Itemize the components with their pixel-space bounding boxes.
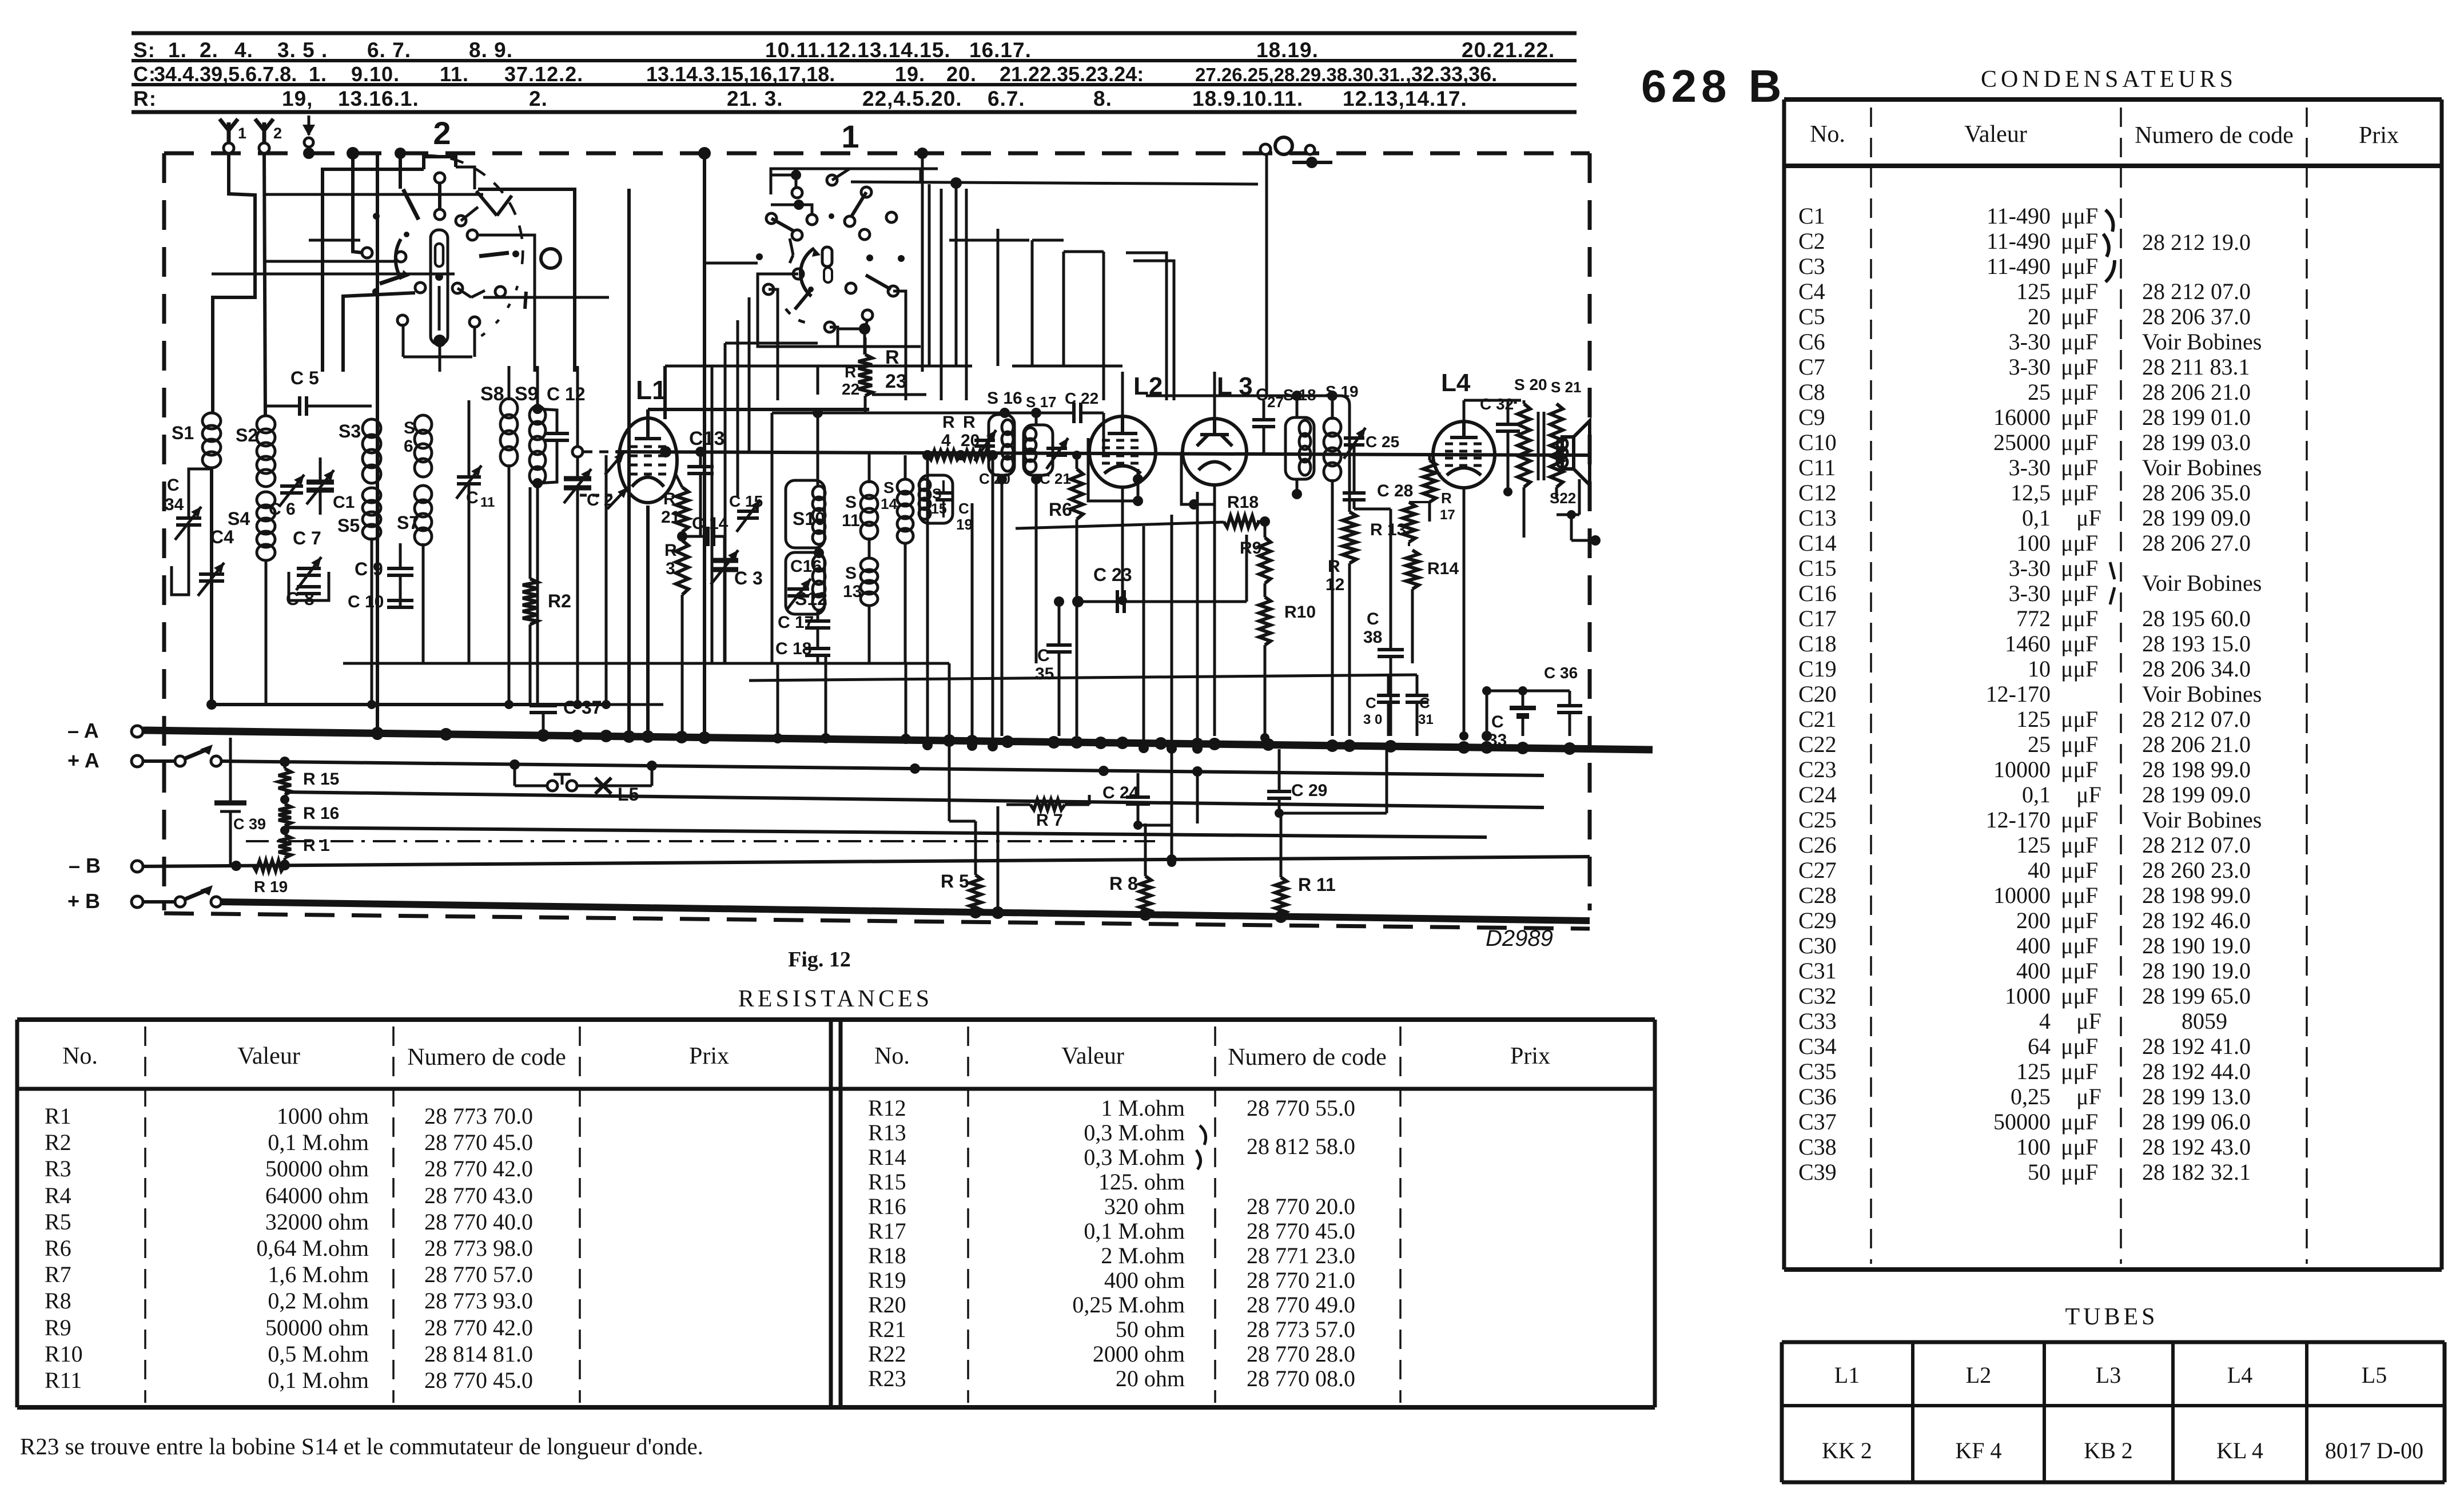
svg-text:C32: C32 xyxy=(1798,983,1837,1009)
svg-text:Fig. 12: Fig. 12 xyxy=(788,948,851,972)
svg-text:40: 40 xyxy=(2028,857,2051,883)
svg-text:μF: μF xyxy=(2076,1008,2101,1034)
coil S15 xyxy=(919,479,930,491)
svg-text:28 770 42.0: 28 770 42.0 xyxy=(424,1315,533,1340)
svg-text:S 21: S 21 xyxy=(1551,379,1582,396)
svg-text:28 260 23.0: 28 260 23.0 xyxy=(2142,857,2251,883)
svg-text:20.: 20. xyxy=(946,62,977,86)
svg-text:S1: S1 xyxy=(172,423,194,443)
svg-text:C 23: C 23 xyxy=(1093,564,1132,585)
svg-text:S: S xyxy=(404,419,415,437)
svg-text:S 20: S 20 xyxy=(1514,376,1547,393)
svg-text:6.7.: 6.7. xyxy=(988,87,1025,110)
svg-text:C 20: C 20 xyxy=(979,470,1010,487)
svg-text:Voir Bobines: Voir Bobines xyxy=(2142,681,2262,707)
resistor R5 xyxy=(970,875,981,914)
svg-text:μμF: μμF xyxy=(2061,1059,2098,1084)
svg-text:27: 27 xyxy=(1267,393,1284,411)
svg-text:R1: R1 xyxy=(45,1103,71,1129)
svg-text:27.26.25,28.29.38.30.31.: 27.26.25,28.29.38.30.31. xyxy=(1195,64,1405,85)
svg-text:No.: No. xyxy=(62,1043,98,1069)
svg-text:0,1 M.ohm: 0,1 M.ohm xyxy=(268,1129,369,1155)
svg-text:28 770 45.0: 28 770 45.0 xyxy=(424,1129,533,1155)
svg-text:28 770 45.0: 28 770 45.0 xyxy=(1247,1218,1355,1244)
svg-text:R10: R10 xyxy=(1284,603,1316,622)
svg-text:Numero de code: Numero de code xyxy=(1228,1044,1387,1071)
coil S13 xyxy=(861,558,878,572)
wire mid-left joins xyxy=(206,699,217,710)
svg-text:21.22.35.23.24:: 21.22.35.23.24: xyxy=(1000,62,1144,86)
svg-text:400: 400 xyxy=(2016,958,2051,984)
svg-text:34.4.39,5.6.7.8.: 34.4.39,5.6.7.8. xyxy=(154,62,297,86)
switch on +B line xyxy=(143,900,174,904)
wire long vertical 1100 xyxy=(627,189,631,736)
svg-text:28 190 19.0: 28 190 19.0 xyxy=(2142,958,2251,984)
svg-text:Prix: Prix xyxy=(1510,1043,1550,1069)
switch 2 right frame xyxy=(478,189,575,372)
resistor R17 xyxy=(1423,460,1436,502)
schematic dashed enclosure border xyxy=(164,152,1590,156)
resistor R13 xyxy=(1403,502,1415,542)
svg-text:0,25 M.ohm: 0,25 M.ohm xyxy=(1072,1292,1185,1318)
svg-text:S 19: S 19 xyxy=(1325,383,1359,400)
svg-text:28 199 65.0: 28 199 65.0 xyxy=(2142,983,2251,1009)
coil S15 shield can xyxy=(919,475,953,523)
svg-text:C1: C1 xyxy=(333,493,355,512)
svg-text:S:: S: xyxy=(133,38,156,62)
coil S5 xyxy=(363,488,381,503)
svg-text:μF: μF xyxy=(2076,1084,2101,1109)
transformer core lines xyxy=(1537,412,1540,480)
svg-text:S5: S5 xyxy=(337,515,360,536)
tube L2 cathode bracket xyxy=(1088,438,1138,501)
svg-text:28 206 35.0: 28 206 35.0 xyxy=(2142,480,2251,506)
main spine wire at y 790 xyxy=(583,451,616,453)
svg-text:28 199 09.0: 28 199 09.0 xyxy=(2142,782,2251,807)
svg-text:C16: C16 xyxy=(1798,580,1837,606)
svg-text:28 770 43.0: 28 770 43.0 xyxy=(424,1183,533,1208)
svg-text:35: 35 xyxy=(1035,665,1054,683)
svg-text:C35: C35 xyxy=(1798,1059,1837,1084)
svg-text:C19: C19 xyxy=(1798,656,1837,682)
svg-text:μμF: μμF xyxy=(2061,832,2098,858)
svg-text:0,25: 0,25 xyxy=(2011,1084,2051,1109)
dial lamp L5 push-button and fuse xyxy=(514,765,516,786)
coil S18 xyxy=(1299,420,1311,436)
switch 2 left frame xyxy=(323,169,424,372)
svg-text:1: 1 xyxy=(238,125,246,142)
svg-text:C 7: C 7 xyxy=(293,528,321,548)
svg-text:R8: R8 xyxy=(45,1288,71,1314)
svg-text:23: 23 xyxy=(885,371,907,392)
svg-text:C 21: C 21 xyxy=(1040,470,1071,487)
bus wire from R16 right xyxy=(285,827,1487,837)
svg-text:28 814 81.0: 28 814 81.0 xyxy=(424,1341,533,1367)
svg-text:R 11: R 11 xyxy=(1298,874,1336,895)
svg-text:8017 D-00: 8017 D-00 xyxy=(2325,1438,2423,1463)
svg-text:Prix: Prix xyxy=(689,1043,729,1069)
svg-text:28 212 07.0: 28 212 07.0 xyxy=(2142,706,2251,732)
svg-text:C 28: C 28 xyxy=(1377,482,1413,500)
svg-text:R7: R7 xyxy=(45,1262,71,1287)
switch 2 dash-dot pointers xyxy=(403,189,419,220)
svg-text:R2: R2 xyxy=(45,1129,71,1155)
svg-text:R 8: R 8 xyxy=(1109,873,1138,894)
svg-text:38: 38 xyxy=(1363,628,1382,647)
resistor R7 xyxy=(1030,799,1065,810)
svg-text:1000 ohm: 1000 ohm xyxy=(277,1103,369,1129)
svg-text:R6: R6 xyxy=(45,1235,71,1261)
svg-text:6: 6 xyxy=(404,437,413,456)
svg-text:125: 125 xyxy=(2016,278,2051,304)
svg-text:R10: R10 xyxy=(45,1341,83,1367)
svg-text:S7: S7 xyxy=(397,512,419,533)
svg-text:S3: S3 xyxy=(339,421,361,441)
resistances table frame xyxy=(17,1017,1655,1022)
svg-text:28 206 21.0: 28 206 21.0 xyxy=(2142,731,2251,757)
gramophone terminals top right xyxy=(1260,144,1271,154)
svg-text:CONDENSATEURS: CONDENSATEURS xyxy=(1981,66,2237,93)
svg-text:R14: R14 xyxy=(1427,559,1459,578)
coil S16 shield can xyxy=(989,415,1014,475)
svg-text:Voir Bobines: Voir Bobines xyxy=(2142,329,2262,355)
svg-text:C36: C36 xyxy=(1798,1084,1837,1109)
wire horizontals upper middle xyxy=(665,365,972,368)
resistor R9 xyxy=(1259,538,1271,583)
svg-text:13: 13 xyxy=(843,582,862,601)
svg-text:C16: C16 xyxy=(790,557,822,576)
svg-text:μμF: μμF xyxy=(2061,1109,2098,1135)
bus +A line xyxy=(221,761,1544,775)
svg-text:28 770 55.0: 28 770 55.0 xyxy=(1247,1095,1355,1121)
svg-text:L1: L1 xyxy=(636,375,667,405)
svg-text:μμF: μμF xyxy=(2061,1134,2098,1160)
svg-text:C20: C20 xyxy=(1798,681,1837,707)
svg-text:1: 1 xyxy=(841,118,859,154)
svg-text:C: C xyxy=(1037,646,1050,665)
svg-text:μμF: μμF xyxy=(2061,1033,2098,1059)
svg-text:C 39: C 39 xyxy=(233,815,266,833)
svg-text:μμF: μμF xyxy=(2061,429,2098,455)
svg-text:3-30: 3-30 xyxy=(2009,555,2051,581)
svg-text:28 773 98.0: 28 773 98.0 xyxy=(424,1235,533,1261)
wire lower horizontal 1160 xyxy=(423,662,949,665)
svg-text:C13: C13 xyxy=(1798,505,1837,531)
switch 1 frame wires xyxy=(758,274,921,347)
svg-text:KB 2: KB 2 xyxy=(2084,1438,2133,1463)
bus +B thick line xyxy=(221,902,1590,921)
svg-text:28 206 34.0: 28 206 34.0 xyxy=(2142,656,2251,682)
svg-text:L5: L5 xyxy=(2362,1362,2387,1388)
svg-text:28 812 58.0: 28 812 58.0 xyxy=(1247,1133,1355,1159)
svg-text:18.19.: 18.19. xyxy=(1256,38,1319,62)
svg-text:22: 22 xyxy=(842,380,859,398)
svg-text:0,3 M.ohm: 0,3 M.ohm xyxy=(1084,1120,1185,1145)
svg-text:μμF: μμF xyxy=(2061,354,2098,380)
svg-text:Voir Bobines: Voir Bobines xyxy=(2142,807,2262,833)
svg-text:28 770 57.0: 28 770 57.0 xyxy=(424,1262,533,1287)
svg-text:19,: 19, xyxy=(282,87,313,110)
dash-dot AVC line xyxy=(246,840,1155,842)
svg-text:16.17.: 16.17. xyxy=(969,38,1032,62)
switch 2 selector arrow xyxy=(396,239,401,279)
resistor R8 xyxy=(1140,876,1151,915)
svg-text:1,6 M.ohm: 1,6 M.ohm xyxy=(268,1262,369,1287)
svg-text:S 18: S 18 xyxy=(1283,386,1316,404)
svg-text:C 14: C 14 xyxy=(692,514,729,533)
svg-text:C38: C38 xyxy=(1798,1134,1837,1160)
svg-text:μμF: μμF xyxy=(2061,404,2098,430)
resistor R14 xyxy=(1406,550,1419,589)
svg-text:R: R xyxy=(664,541,677,560)
wire antenna bus across top xyxy=(211,297,214,413)
svg-text:10000: 10000 xyxy=(1993,757,2051,782)
svg-text:C39: C39 xyxy=(1798,1159,1837,1185)
svg-text:R12: R12 xyxy=(868,1095,906,1121)
svg-text:3: 3 xyxy=(666,559,675,578)
svg-text:L4: L4 xyxy=(1441,369,1471,397)
svg-text:R:: R: xyxy=(133,87,157,110)
svg-text:28 206 21.0: 28 206 21.0 xyxy=(2142,379,2251,405)
svg-text:28 192 43.0: 28 192 43.0 xyxy=(2142,1134,2251,1160)
coil S18 shield can xyxy=(1285,417,1314,479)
switch 2 wire from top border xyxy=(347,147,359,160)
svg-text:28 199 09.0: 28 199 09.0 xyxy=(2142,505,2251,531)
coil S10 shield can xyxy=(786,480,825,548)
svg-text:R4: R4 xyxy=(45,1183,71,1208)
svg-text:R 15: R 15 xyxy=(303,770,339,789)
resistor R2 xyxy=(523,579,538,624)
svg-text:C: C xyxy=(1491,713,1504,731)
resistor R12 xyxy=(1343,512,1356,563)
svg-text:C10: C10 xyxy=(1798,429,1837,455)
svg-text:R11: R11 xyxy=(45,1367,82,1393)
tube L2 wires xyxy=(1121,372,1124,416)
svg-text:C15: C15 xyxy=(1798,555,1837,581)
wire S16 top line xyxy=(928,412,1064,415)
svg-text:0,1 M.ohm: 0,1 M.ohm xyxy=(268,1367,369,1393)
svg-text:S 17: S 17 xyxy=(1026,393,1057,411)
svg-text:32000 ohm: 32000 ohm xyxy=(265,1209,369,1235)
svg-text:μμF: μμF xyxy=(2061,731,2098,757)
svg-text:11.: 11. xyxy=(440,62,469,86)
svg-text:125: 125 xyxy=(2016,832,2051,858)
svg-text:C: C xyxy=(1366,694,1376,711)
svg-text:Valeur: Valeur xyxy=(1964,121,2027,148)
svg-text:C3: C3 xyxy=(1798,253,1825,279)
svg-text:28 211 83.1: 28 211 83.1 xyxy=(2142,354,2250,380)
svg-text:μμF: μμF xyxy=(2061,203,2098,229)
svg-text:Valeur: Valeur xyxy=(237,1043,300,1069)
svg-text:28 770 40.0: 28 770 40.0 xyxy=(424,1209,533,1235)
svg-text:C29: C29 xyxy=(1798,908,1837,933)
svg-text:0,64 M.ohm: 0,64 M.ohm xyxy=(256,1235,369,1261)
wire top dashed junction to switch xyxy=(395,148,406,159)
svg-text:20.21.22.: 20.21.22. xyxy=(1462,38,1555,62)
svg-text:13.16.1.: 13.16.1. xyxy=(338,87,419,110)
svg-text:R17: R17 xyxy=(868,1218,906,1244)
svg-text:S: S xyxy=(845,564,857,583)
svg-text:S4: S4 xyxy=(228,508,250,529)
switch 2 dial lamp circle xyxy=(541,249,560,268)
wire detector stage box top xyxy=(1146,395,1342,397)
svg-text:C 5: C 5 xyxy=(290,368,319,388)
svg-text:μμF: μμF xyxy=(2061,933,2098,958)
svg-text:R15: R15 xyxy=(868,1169,906,1195)
svg-text:1460: 1460 xyxy=(2005,631,2051,656)
svg-text:– B: – B xyxy=(69,854,101,877)
svg-text:R 5: R 5 xyxy=(941,871,969,892)
grid stopper R17 wire xyxy=(1428,502,1431,522)
wire verticals to negative A bus xyxy=(926,455,929,745)
svg-text:C6: C6 xyxy=(1798,329,1825,355)
svg-text:28 770 20.0: 28 770 20.0 xyxy=(1247,1193,1355,1219)
svg-text:3 0: 3 0 xyxy=(1363,712,1382,727)
wire C34 C4 frame xyxy=(189,469,212,480)
svg-text:11-490: 11-490 xyxy=(1987,253,2051,279)
output transformer primary S20 xyxy=(1518,404,1530,487)
svg-text:S22: S22 xyxy=(1550,490,1576,507)
svg-text:C11: C11 xyxy=(1798,455,1836,480)
coil S16 xyxy=(1002,420,1013,435)
switch 2 wire left horizontals xyxy=(266,260,396,263)
svg-text:μμF: μμF xyxy=(2061,606,2098,631)
bus -B line xyxy=(143,857,1590,866)
svg-text:6. 7.: 6. 7. xyxy=(367,38,411,62)
svg-text:12-170: 12-170 xyxy=(1986,681,2051,707)
resistor R11 xyxy=(1275,877,1287,916)
svg-text:125: 125 xyxy=(2016,706,2051,732)
svg-text:L3: L3 xyxy=(2096,1362,2121,1388)
switch 1 selector arrow xyxy=(801,248,814,296)
svg-text:C:: C: xyxy=(133,62,156,86)
svg-text:Voir Bobines: Voir Bobines xyxy=(2142,455,2262,480)
resistor R3 xyxy=(676,540,688,595)
switch 2 top hat notch xyxy=(424,157,456,169)
svg-text:C37: C37 xyxy=(1798,1109,1837,1135)
coil S1 xyxy=(202,413,221,429)
bus wire from R15 right xyxy=(285,792,1544,807)
svg-text:C22: C22 xyxy=(1798,731,1837,757)
svg-text:C: C xyxy=(167,476,180,495)
svg-text:C 10: C 10 xyxy=(348,592,384,611)
svg-text:L5: L5 xyxy=(618,784,639,805)
svg-text:0,1 M.ohm: 0,1 M.ohm xyxy=(1084,1218,1185,1244)
switch 2 contacts xyxy=(435,173,445,183)
svg-text:28 199 13.0: 28 199 13.0 xyxy=(2142,1084,2251,1109)
svg-text:μμF: μμF xyxy=(2061,983,2098,1009)
svg-text:R6: R6 xyxy=(1049,499,1072,520)
condensateurs table frame xyxy=(1784,97,2442,102)
svg-text:C: C xyxy=(958,500,969,517)
svg-text:C17: C17 xyxy=(1798,606,1837,631)
svg-text:μF: μF xyxy=(2076,782,2101,807)
wire lower horizontal 1190 xyxy=(749,675,1417,681)
svg-text:11: 11 xyxy=(842,511,860,530)
svg-text:,32.33,36.: ,32.33,36. xyxy=(1406,62,1497,86)
svg-text:μμF: μμF xyxy=(2061,857,2098,883)
svg-text:9.10.: 9.10. xyxy=(351,62,400,86)
tube L3 cathode bracket xyxy=(1181,452,1215,504)
svg-text:μμF: μμF xyxy=(2061,278,2098,304)
svg-text:28 773 93.0: 28 773 93.0 xyxy=(424,1288,533,1314)
svg-text:C5: C5 xyxy=(1798,304,1825,329)
svg-text:28 212 19.0: 28 212 19.0 xyxy=(2142,229,2251,255)
svg-text:21. 3.: 21. 3. xyxy=(727,87,783,110)
svg-text:28 199 06.0: 28 199 06.0 xyxy=(2142,1109,2251,1135)
svg-text:100: 100 xyxy=(2016,1134,2051,1160)
svg-text:25: 25 xyxy=(2028,731,2051,757)
svg-text:μμF: μμF xyxy=(2061,379,2098,405)
svg-text:19.: 19. xyxy=(895,62,925,86)
svg-text:3. 5 .: 3. 5 . xyxy=(277,38,328,62)
svg-text:2.: 2. xyxy=(529,87,548,110)
svg-text:3-30: 3-30 xyxy=(2009,455,2051,480)
svg-text:R23: R23 xyxy=(868,1366,906,1391)
svg-text:28 193 15.0: 28 193 15.0 xyxy=(2142,631,2251,656)
tube L4 (KL 4) xyxy=(1433,421,1495,488)
svg-text:22,4.5.20.: 22,4.5.20. xyxy=(862,87,962,110)
svg-text:2: 2 xyxy=(273,125,282,142)
coil S4 xyxy=(257,492,275,508)
switch on +A line xyxy=(143,759,174,763)
svg-text:C: C xyxy=(1367,610,1379,628)
svg-text:0,1: 0,1 xyxy=(2022,782,2051,807)
svg-text:R: R xyxy=(885,347,899,368)
svg-text:12.13,14.17.: 12.13,14.17. xyxy=(1343,87,1467,110)
wire long vertical 1163 xyxy=(663,366,667,419)
brace C15-C16 and Voir Bobines xyxy=(2110,562,2115,579)
tube L1 anode wire up xyxy=(646,409,650,420)
svg-text:μμF: μμF xyxy=(2061,329,2098,355)
svg-text:R 16: R 16 xyxy=(303,804,339,823)
svg-text:2 M.ohm: 2 M.ohm xyxy=(1101,1243,1185,1268)
svg-text:μμF: μμF xyxy=(2061,631,2098,656)
svg-text:S8: S8 xyxy=(480,383,504,405)
resistor R6 xyxy=(1070,469,1083,519)
svg-text:μF: μF xyxy=(2076,505,2101,531)
coil S6 xyxy=(415,415,432,433)
wire horizontals upper left xyxy=(264,193,483,196)
svg-text:28 192 44.0: 28 192 44.0 xyxy=(2142,1059,2251,1084)
svg-text:C 3: C 3 xyxy=(734,568,763,588)
resistor R15 xyxy=(278,769,291,795)
svg-text:C18: C18 xyxy=(1798,631,1837,656)
capacitor C3 variable xyxy=(711,558,738,563)
svg-text:L2: L2 xyxy=(1133,372,1163,400)
coil S3 xyxy=(363,419,381,437)
svg-text:R: R xyxy=(845,363,856,381)
svg-text:12: 12 xyxy=(1325,575,1344,594)
svg-text:R: R xyxy=(963,413,976,432)
tube L3 (KB 2) xyxy=(1183,419,1247,485)
svg-text:28 771 23.0: 28 771 23.0 xyxy=(1247,1243,1355,1268)
svg-text:8.: 8. xyxy=(1093,87,1112,110)
svg-text:μμF: μμF xyxy=(2061,228,2098,254)
svg-text:No.: No. xyxy=(874,1043,910,1069)
svg-text:μμF: μμF xyxy=(2061,455,2098,480)
resistor R21 xyxy=(676,487,688,532)
svg-text:11: 11 xyxy=(480,495,495,510)
svg-text:28 199 03.0: 28 199 03.0 xyxy=(2142,429,2251,455)
svg-text:28 770 42.0: 28 770 42.0 xyxy=(424,1156,533,1181)
svg-text:R22: R22 xyxy=(868,1341,906,1367)
svg-text:L2: L2 xyxy=(1966,1362,1991,1388)
svg-text:4: 4 xyxy=(941,431,951,450)
svg-text:1.: 1. xyxy=(309,62,327,86)
capacitor C39 electrolytic xyxy=(229,738,232,803)
svg-text:C26: C26 xyxy=(1798,832,1837,858)
